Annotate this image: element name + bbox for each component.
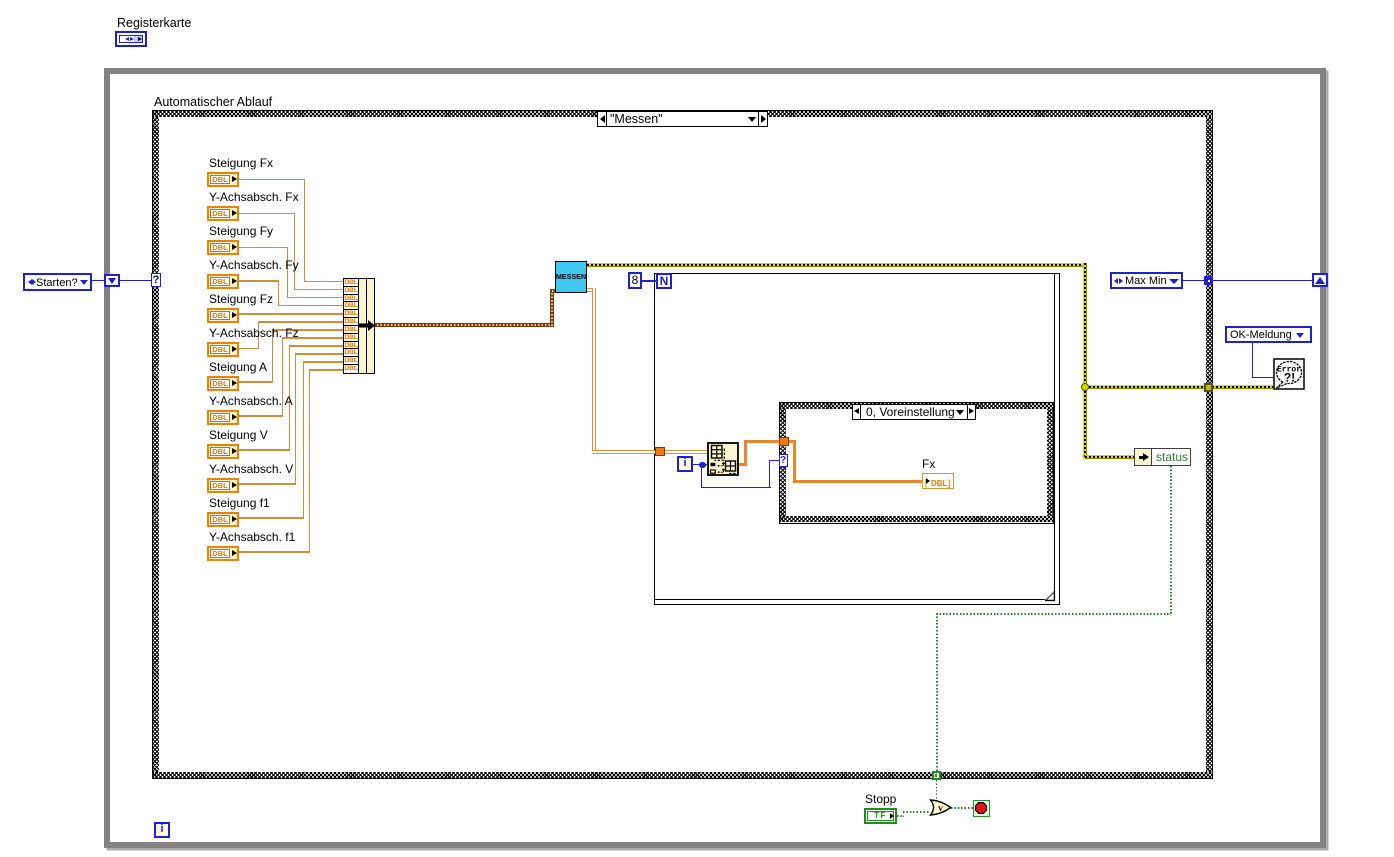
svg-text:?!: ?!	[1284, 371, 1295, 385]
svg-text:v: v	[938, 804, 943, 814]
